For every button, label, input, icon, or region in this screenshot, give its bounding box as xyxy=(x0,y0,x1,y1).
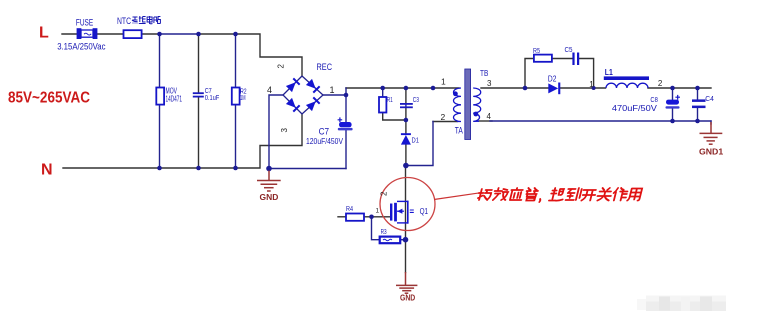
svg-text:3: 3 xyxy=(280,128,289,133)
svg-text:4: 4 xyxy=(487,112,492,121)
svg-text:GND1: GND1 xyxy=(699,147,723,157)
svg-text:D1: D1 xyxy=(412,136,420,145)
svg-text:C4: C4 xyxy=(705,94,714,103)
svg-text:120uF/450V: 120uF/450V xyxy=(306,136,343,146)
svg-text:R1: R1 xyxy=(387,97,393,104)
svg-text:C3: C3 xyxy=(413,97,419,104)
svg-text:R3: R3 xyxy=(381,227,387,236)
svg-text:NTC: NTC xyxy=(117,16,131,26)
svg-text:1: 1 xyxy=(441,77,446,87)
svg-text:GND: GND xyxy=(400,292,415,302)
svg-text:R4: R4 xyxy=(346,204,353,213)
svg-text:C8: C8 xyxy=(650,95,658,104)
svg-text:1: 1 xyxy=(589,80,594,89)
svg-text:1M: 1M xyxy=(240,95,246,102)
svg-text:470uF/50V: 470uF/50V xyxy=(612,104,658,113)
svg-text:2: 2 xyxy=(277,64,286,69)
svg-text:TB: TB xyxy=(480,69,488,78)
svg-text:3: 3 xyxy=(487,79,492,88)
svg-text:C5: C5 xyxy=(565,45,573,54)
svg-text:L: L xyxy=(39,25,49,42)
svg-text:1: 1 xyxy=(376,208,380,215)
svg-text:0.1uF: 0.1uF xyxy=(205,93,220,102)
svg-text:Q1: Q1 xyxy=(420,206,429,216)
svg-text:2: 2 xyxy=(658,79,663,88)
svg-text:TA: TA xyxy=(455,126,463,136)
svg-text:N: N xyxy=(41,162,53,179)
svg-text:2: 2 xyxy=(441,112,446,122)
svg-text:85V~265VAC: 85V~265VAC xyxy=(8,90,90,107)
svg-text:D2: D2 xyxy=(548,75,557,84)
svg-text:FUSE: FUSE xyxy=(76,18,93,29)
svg-text:1: 1 xyxy=(330,85,335,95)
svg-text:REC: REC xyxy=(317,62,333,72)
svg-text:R5: R5 xyxy=(533,46,540,55)
svg-text:GND: GND xyxy=(260,192,279,202)
svg-text:2: 2 xyxy=(380,191,389,196)
svg-text:4: 4 xyxy=(267,85,272,95)
svg-text:L1: L1 xyxy=(605,67,613,77)
svg-text:3.15A/250Vac: 3.15A/250Vac xyxy=(57,41,106,51)
svg-text:14D471: 14D471 xyxy=(166,94,183,103)
